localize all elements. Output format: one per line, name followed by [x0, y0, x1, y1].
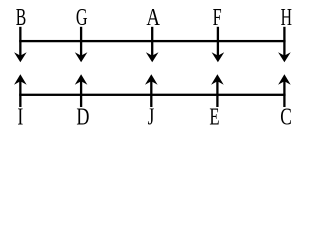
arrow to D (up)	[75, 74, 88, 107]
arrow from B (down)	[14, 27, 27, 63]
arrow to E (up)	[211, 74, 224, 107]
arrow to I (up)	[14, 74, 27, 107]
svg-text:B: B	[16, 5, 26, 31]
arrow from A (down)	[146, 27, 159, 63]
svg-text:H: H	[281, 5, 292, 31]
arrow from H (down)	[278, 27, 291, 63]
arrow from G (down)	[75, 27, 88, 63]
svg-text:J: J	[148, 105, 155, 130]
svg-text:I: I	[17, 103, 23, 130]
svg-text:C: C	[280, 103, 292, 130]
svg-text:D: D	[76, 103, 89, 130]
svg-text:E: E	[209, 105, 219, 130]
bottom horizontal line	[19, 94, 285, 96]
svg-text:F: F	[213, 5, 222, 31]
arrow to J (up)	[145, 74, 158, 107]
svg-text:A: A	[146, 4, 160, 31]
arrow to C (up)	[278, 74, 291, 107]
svg-text:G: G	[76, 5, 88, 31]
top horizontal line	[19, 40, 285, 42]
arrow from F (down)	[212, 27, 225, 63]
